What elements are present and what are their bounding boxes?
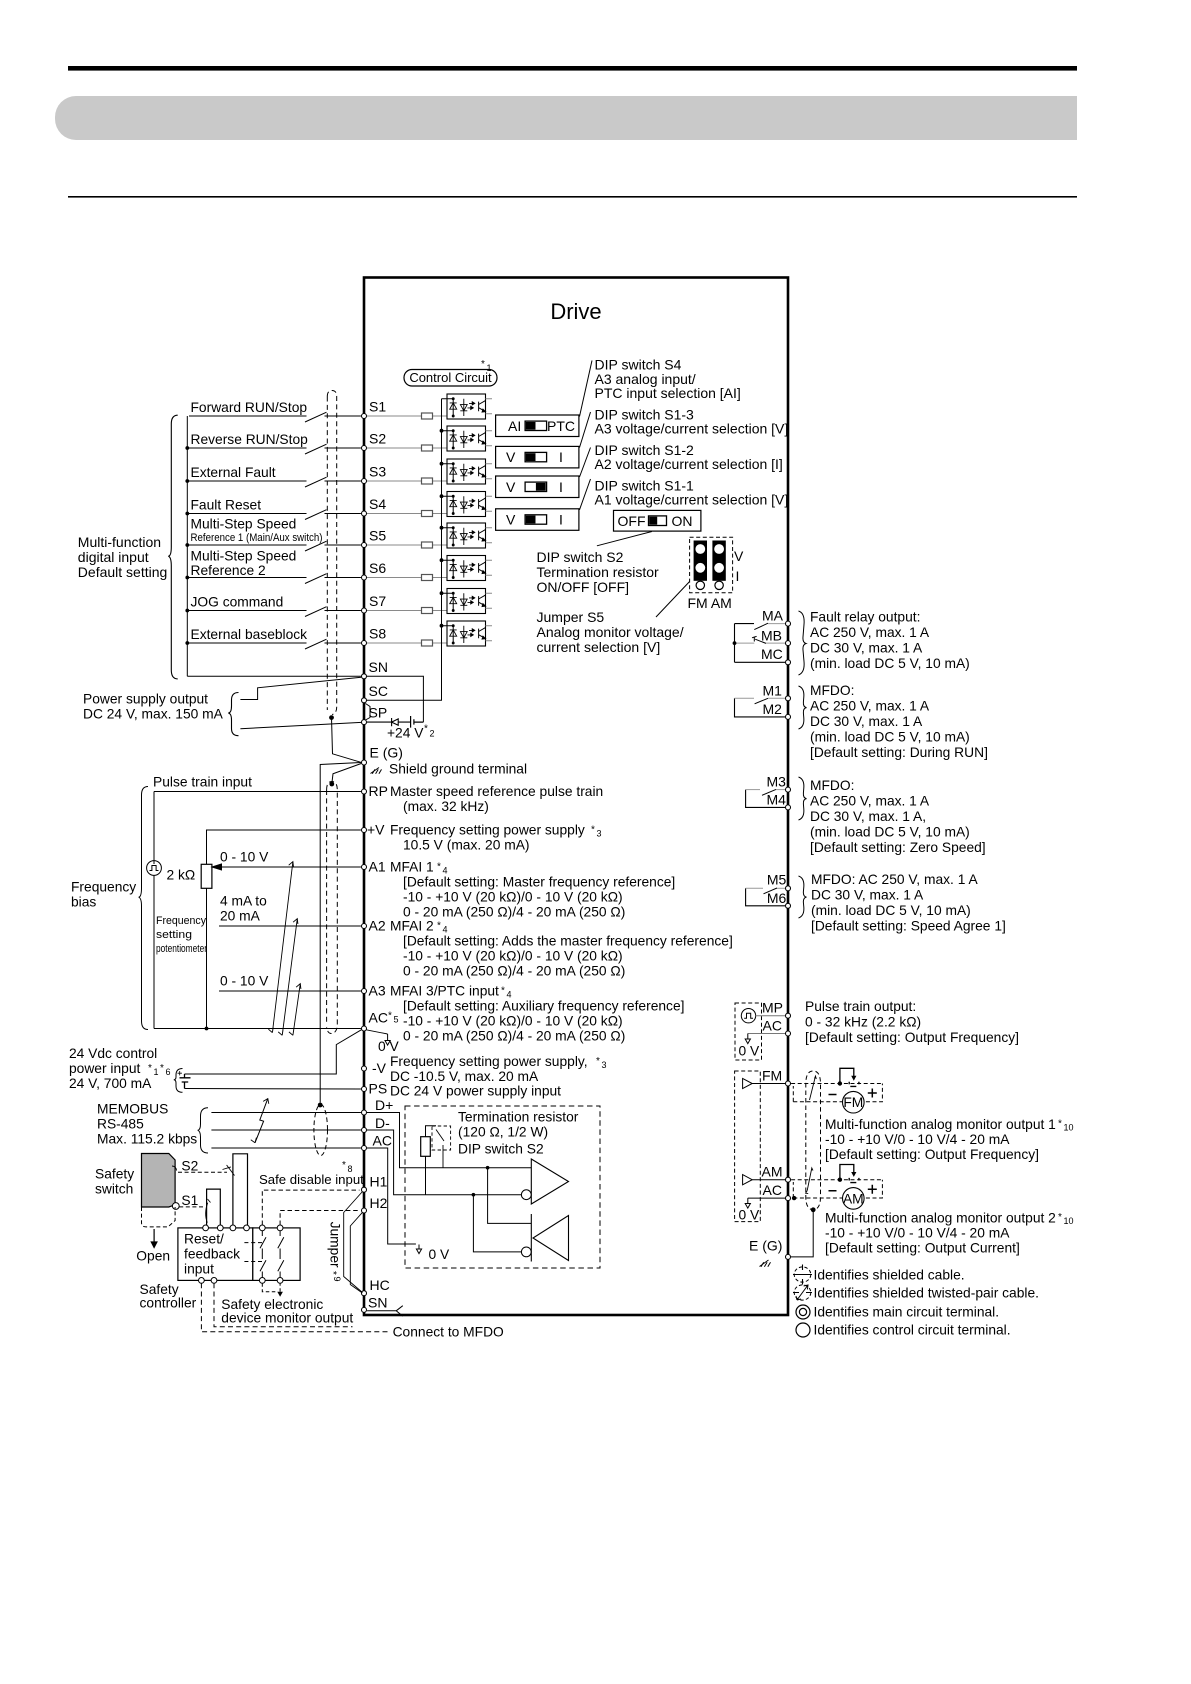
svg-text:I: I [559, 449, 563, 465]
svg-text:Power supply output: Power supply output [83, 692, 208, 707]
safety controller reset box [178, 1228, 253, 1281]
label RP [369, 783, 604, 814]
optocoupler S2 [442, 426, 493, 451]
wire pulse source vertical [153, 861, 155, 1029]
svg-text:current selection [V]: current selection [V] [537, 639, 661, 655]
dashed monitor output arrow [262, 1283, 283, 1297]
svg-text:Safety: Safety [95, 1167, 134, 1182]
wire S2 dashed [178, 1171, 227, 1173]
svg-text:M4: M4 [767, 792, 787, 808]
svg-text:[Default setting: Zero Speed]: [Default setting: Zero Speed] [810, 840, 986, 855]
svg-text:MFDO: AC 250 V, max. 1 A: MFDO: AC 250 V, max. 1 A [811, 872, 978, 887]
svg-text:Identifies control circuit ter: Identifies control circuit terminal. [814, 1323, 1011, 1338]
resistor S6 input [367, 575, 447, 581]
jumper H2 to HC [350, 1212, 362, 1293]
terminal MP [762, 1000, 791, 1019]
svg-text:[Default setting: Output Frequ: [Default setting: Output Frequency] [805, 1030, 1019, 1045]
DIP switch S2 OFF/ON box [614, 510, 701, 531]
callout line S1-1 [580, 479, 591, 510]
terminal PS [362, 1087, 367, 1092]
label safe disable input [259, 1160, 364, 1187]
wire SC internal to opto common bus [367, 399, 443, 701]
svg-text:0 - 20 mA (250 Ω)/4 - 20 mA (2: 0 - 20 mA (250 Ω)/4 - 20 mA (250 Ω) [403, 964, 625, 979]
digital input label S4 [191, 497, 262, 512]
S1 connector bump [207, 1189, 221, 1228]
callout line jumper S5 [656, 582, 690, 618]
MFDO relay M5/M6 [746, 888, 785, 906]
legend twisted pair icon [793, 1285, 812, 1300]
svg-text:A1: A1 [369, 859, 386, 875]
svg-text:MP: MP [762, 1000, 783, 1016]
svg-text:DC 30 V, max. 1 A: DC 30 V, max. 1 A [810, 714, 923, 729]
wire A2 [219, 925, 361, 927]
terminal H2 [362, 1195, 388, 1213]
label FM AM jumper [688, 595, 732, 611]
legend shielded cable icon [793, 1265, 812, 1285]
DIP switch S2 contact [432, 1126, 451, 1168]
MFDO relay M3/M4 [746, 789, 785, 807]
svg-text:Frequency setting power supply: Frequency setting power supply, [390, 1054, 588, 1069]
svg-text:DIP switch S2: DIP switch S2 [537, 549, 624, 565]
battery +24V [387, 716, 435, 741]
svg-text:M2: M2 [763, 701, 783, 717]
DIP switch S1-3 box (V/I) [496, 446, 579, 468]
wire A1 wiper [212, 864, 361, 870]
brace fault relay [799, 611, 807, 675]
svg-text:Multi-Step Speed: Multi-Step Speed [191, 516, 297, 531]
svg-text:[Default setting: Speed Agree: [Default setting: Speed Agree 1] [811, 919, 1006, 934]
optocoupler S3 [442, 459, 493, 484]
terminal S7 [362, 593, 387, 613]
svg-text:S8: S8 [369, 626, 386, 642]
svg-text:S7: S7 [369, 593, 386, 609]
wire D+ external [211, 1112, 361, 1114]
terminal MA [762, 608, 791, 627]
wire safe disable H2 dashed [280, 1211, 359, 1226]
label MFDO M5M6 [811, 872, 1006, 934]
label DIP switch S1-1 [595, 477, 789, 507]
FM output driver [743, 1078, 785, 1088]
svg-text:24 V, 700 mA: 24 V, 700 mA [69, 1076, 152, 1091]
label 0V monitor [739, 1208, 761, 1223]
svg-text:[Default setting: Adds the mas: [Default setting: Adds the master freque… [403, 934, 733, 949]
svg-text:-10 - +10 V (20 kΩ)/0 - 10 V (: -10 - +10 V (20 kΩ)/0 - 10 V (20 kΩ) [403, 949, 623, 964]
wire S4 input [189, 510, 361, 520]
svg-text:(min. load DC 5 V, 10 mA): (min. load DC 5 V, 10 mA) [810, 825, 970, 840]
svg-text:0 V: 0 V [739, 1208, 761, 1223]
svg-text:*: * [424, 724, 428, 735]
resistor S3 input [367, 478, 447, 484]
svg-text:Shield ground terminal: Shield ground terminal [389, 762, 527, 777]
svg-text:E (G): E (G) [749, 1238, 782, 1254]
svg-text:DC 30 V, max. 1 A: DC 30 V, max. 1 A [811, 888, 924, 903]
label 0V termination [429, 1247, 451, 1262]
wire D- internal [367, 1130, 521, 1196]
label analog monitor output 1 [825, 1117, 1074, 1162]
svg-text:device monitor output: device monitor output [221, 1311, 353, 1326]
svg-text:H1: H1 [370, 1174, 388, 1190]
svg-text:0 - 20 mA (250 Ω)/4 - 20 mA (2: 0 - 20 mA (250 Ω)/4 - 20 mA (250 Ω) [403, 1029, 625, 1044]
svg-text:DC 30 V, max. 1 A,: DC 30 V, max. 1 A, [810, 809, 926, 824]
terminal M1 [763, 683, 791, 701]
optocoupler S1 [442, 394, 493, 419]
svg-text:S5: S5 [369, 528, 386, 544]
svg-text:(120 Ω, 1/2 W): (120 Ω, 1/2 W) [458, 1125, 548, 1140]
wire 24Vdc negative to PS [185, 1088, 361, 1091]
svg-text:FM: FM [762, 1068, 782, 1084]
wire S3 input [189, 477, 361, 487]
svg-text:Jumper: Jumper [328, 1222, 343, 1268]
svg-text:9: 9 [332, 1277, 342, 1282]
svg-text:A3 voltage/current selection [: A3 voltage/current selection [V] [595, 421, 789, 437]
wire D- external [211, 1129, 361, 1131]
wire S5 input [189, 541, 361, 551]
optocoupler S4 [442, 492, 493, 517]
svg-text:Reference 2: Reference 2 [191, 563, 266, 578]
ground symbol bottom [760, 1260, 771, 1267]
svg-text:(min. load DC 5 V, 10 mA): (min. load DC 5 V, 10 mA) [811, 903, 971, 918]
drive box [364, 278, 788, 1316]
twisted wire marks analog [268, 862, 301, 1036]
DIP switch S1-1 box (V/I) [496, 509, 579, 531]
svg-text:Frequency: Frequency [156, 915, 206, 927]
svg-text:Multi-Step Speed: Multi-Step Speed [191, 548, 297, 563]
label frequency bias [71, 880, 136, 910]
svg-text:FM AM: FM AM [688, 595, 732, 611]
svg-text:SC: SC [369, 683, 388, 699]
shield ellipse memobus [314, 1105, 328, 1156]
terminal H1 [362, 1174, 388, 1193]
svg-text:MA: MA [762, 608, 784, 624]
terminal RP [362, 789, 367, 794]
terminal S2 [362, 431, 387, 451]
terminal A2 [362, 924, 367, 929]
brace MEMOBUS [198, 1108, 208, 1153]
svg-text:-V: -V [372, 1060, 387, 1076]
svg-text:2: 2 [430, 729, 435, 739]
wire SN common return [187, 675, 361, 677]
svg-text:DC 24 V, max. 150 mA: DC 24 V, max. 150 mA [83, 707, 224, 722]
svg-text:MFAI 1: MFAI 1 [390, 860, 434, 875]
ground symbol shield ground [371, 768, 382, 774]
callout line S4 [580, 361, 593, 417]
wire 24Vdc positive to AC [185, 1030, 362, 1074]
svg-text:*: * [327, 1271, 338, 1275]
AM meter [829, 1185, 877, 1210]
svg-text:Frequency setting power supply: Frequency setting power supply [390, 823, 585, 838]
optocoupler S8 [442, 621, 493, 646]
svg-text:power input: power input [69, 1061, 140, 1076]
wire +V to potentiometer [207, 830, 361, 864]
terminal -V [362, 1066, 367, 1071]
safety switch body [142, 1154, 180, 1210]
svg-text:*: * [1058, 1212, 1062, 1223]
svg-text:*: * [437, 921, 441, 932]
wire AC external [211, 1147, 361, 1149]
svg-text:H2: H2 [370, 1195, 388, 1211]
resistor S2 input [367, 445, 447, 451]
label -V [372, 1054, 607, 1084]
svg-text:Analog monitor voltage/: Analog monitor voltage/ [537, 624, 684, 640]
label frequency setting potentiometer [156, 915, 207, 955]
digital input label S5 [191, 516, 323, 544]
svg-text:Fault relay output:: Fault relay output: [810, 610, 920, 625]
terminal A3 [362, 989, 367, 994]
svg-text:I: I [559, 479, 563, 495]
label fault relay output [810, 610, 970, 672]
svg-text:V: V [506, 512, 516, 528]
svg-text:0 - 20 mA (250 Ω)/4 - 20 mA (2: 0 - 20 mA (250 Ω)/4 - 20 mA (250 Ω) [403, 905, 625, 920]
svg-text:V: V [506, 449, 516, 465]
terminal SC [362, 683, 388, 703]
terminal S3 [362, 464, 387, 484]
svg-text:MFDO:: MFDO: [810, 778, 854, 793]
svg-text:I: I [559, 512, 563, 528]
digital input label S8 [191, 627, 308, 642]
label PS [369, 1081, 562, 1099]
twisted pair mark memobus [251, 1099, 269, 1143]
S2 contact blade [223, 1165, 235, 1176]
shield drain digital inputs [329, 715, 361, 762]
label multi-function digital input [78, 534, 168, 580]
wire SN internal to +24V [367, 676, 423, 722]
svg-text:*: * [481, 359, 485, 370]
brace 24Vdc input [174, 1069, 183, 1093]
svg-text:Multi-function: Multi-function [78, 534, 161, 550]
resistor S1 input [367, 413, 447, 419]
terminal M3 [767, 774, 791, 793]
svg-text:MFAI 3/PTC input: MFAI 3/PTC input [390, 984, 499, 999]
FM jumper loop [838, 1068, 859, 1086]
svg-text:potentiometer: potentiometer [156, 943, 207, 955]
svg-text:JOG command: JOG command [191, 594, 284, 609]
label DIP switch S2 termination [537, 549, 659, 595]
svg-text:Control Circuit: Control Circuit [409, 370, 492, 385]
svg-text:1: 1 [487, 363, 492, 373]
termination resistor R [421, 1126, 436, 1195]
DIP switch S1-2 box (V/I) [496, 476, 579, 498]
legend text control terminal [814, 1323, 1011, 1338]
svg-text:ON/OFF [OFF]: ON/OFF [OFF] [537, 579, 630, 595]
label A1 [369, 859, 676, 920]
svg-text:AC 250 V, max. 1 A: AC 250 V, max. 1 A [810, 794, 930, 809]
svg-text:6: 6 [166, 1067, 171, 1077]
svg-text:A2: A2 [369, 918, 386, 934]
brace power supply output [228, 693, 238, 736]
control circuit label [404, 359, 497, 386]
svg-text:0 V: 0 V [739, 1044, 761, 1059]
svg-text:Identifies main circuit termin: Identifies main circuit terminal. [814, 1305, 1000, 1320]
svg-text:AM: AM [762, 1164, 783, 1180]
arrow open [151, 1229, 157, 1247]
svg-text:3: 3 [602, 1060, 607, 1070]
resistor S5 input [367, 542, 447, 548]
svg-text:AM: AM [843, 1191, 864, 1206]
terminal M2 [763, 701, 791, 719]
potentiometer 2k [167, 864, 212, 1028]
svg-text:Reset/: Reset/ [184, 1232, 224, 1247]
safety contact pair 1 [260, 1231, 266, 1278]
wire SC-SP jumper link [366, 704, 371, 721]
svg-text:8: 8 [348, 1164, 353, 1174]
wire S7 input [189, 607, 361, 617]
svg-text:*: * [1058, 1119, 1062, 1130]
wire AC to 0V arrow [366, 1030, 390, 1045]
wire AC internal to 0V [367, 1148, 422, 1254]
wire buffer branch upper [488, 1168, 532, 1224]
svg-text:S1: S1 [181, 1193, 198, 1208]
label 24Vdc control power input [69, 1046, 171, 1091]
svg-text:SP: SP [369, 705, 388, 721]
svg-text:[Default setting: Master frequ: [Default setting: Master frequency refer… [403, 875, 675, 890]
label open [136, 1249, 170, 1264]
svg-text:Pulse train input: Pulse train input [153, 775, 252, 790]
svg-text:[Default setting: Output Frequ: [Default setting: Output Frequency] [825, 1147, 1039, 1162]
svg-text:Frequency: Frequency [71, 880, 136, 895]
terminal E(G) bottom [749, 1238, 791, 1260]
wire buffer branch lower [473, 1195, 521, 1252]
svg-text:DC 24 V power supply input: DC 24 V power supply input [390, 1084, 561, 1099]
svg-text:MC: MC [761, 646, 783, 662]
svg-text:-10 - +10 V (20 kΩ)/0 - 10 V (: -10 - +10 V (20 kΩ)/0 - 10 V (20 kΩ) [403, 1014, 623, 1029]
svg-text:*: * [342, 1160, 346, 1171]
shielded cable digital inputs [327, 391, 336, 715]
svg-text:AC: AC [369, 1010, 388, 1026]
svg-text:RP: RP [369, 783, 388, 799]
digital input label S6 [191, 548, 297, 578]
brace multi-function digital input [168, 415, 177, 679]
label MEMOBUS [97, 1102, 197, 1147]
label jumper [327, 1222, 343, 1282]
svg-text:DIP switch S2: DIP switch S2 [458, 1142, 544, 1157]
svg-text:*: * [591, 825, 595, 836]
resistor S4 input [367, 511, 447, 517]
svg-text:RS-485: RS-485 [97, 1117, 144, 1132]
wire S2 input [189, 444, 361, 454]
label MFDO M3M4 [810, 778, 986, 855]
svg-text:DC -10.5 V, max. 20 mA: DC -10.5 V, max. 20 mA [390, 1069, 539, 1084]
svg-text:*: * [596, 1056, 600, 1067]
svg-text:I: I [736, 568, 740, 584]
svg-text:AC: AC [763, 1182, 782, 1198]
svg-text:20 mA: 20 mA [220, 909, 261, 924]
svg-text:AC 250 V, max. 1 A: AC 250 V, max. 1 A [810, 699, 930, 714]
terminal SP [362, 705, 388, 725]
svg-text:0 V: 0 V [429, 1247, 451, 1262]
label A3 [369, 983, 685, 1044]
callout line S1-2 [580, 448, 591, 478]
svg-text:-10 - +10 V/0 - 10 V/4 - 20 mA: -10 - +10 V/0 - 10 V/4 - 20 mA [825, 1226, 1010, 1241]
svg-text:10: 10 [1064, 1123, 1074, 1133]
svg-text:Safe disable input: Safe disable input [259, 1172, 364, 1187]
svg-text:DC 30 V, max. 1 A: DC 30 V, max. 1 A [810, 641, 923, 656]
svg-text:-10 - +10 V (20 kΩ)/0 - 10 V (: -10 - +10 V (20 kΩ)/0 - 10 V (20 kΩ) [403, 890, 623, 905]
AM meter dashed leads [791, 1180, 883, 1201]
svg-text:MFDO:: MFDO: [810, 683, 854, 698]
label DIP switch S4 [595, 356, 741, 401]
svg-text:setting: setting [156, 929, 192, 941]
svg-text:Master speed reference pulse t: Master speed reference pulse train [390, 784, 603, 799]
legend text shielded cable [814, 1268, 965, 1283]
wire S8 input [189, 639, 361, 649]
svg-text:0 V: 0 V [378, 1039, 400, 1054]
shield drain monitors [791, 1207, 816, 1257]
DIP switch S4 box (AI/PTC) [496, 415, 579, 437]
svg-text:MFAI 2: MFAI 2 [390, 919, 434, 934]
svg-text:Pulse train output:: Pulse train output: [805, 999, 916, 1014]
svg-text:(min. load DC 5 V, 10 mA): (min. load DC 5 V, 10 mA) [810, 656, 970, 671]
contact linkage dashes [244, 1243, 264, 1262]
svg-text:-10 - +10 V/0 - 10 V/4 - 20 mA: -10 - +10 V/0 - 10 V/4 - 20 mA [825, 1132, 1010, 1147]
terminal AC analog common [362, 1026, 367, 1031]
digital input label S3 [191, 465, 276, 480]
svg-text:0 - 32 kHz (2.2 kΩ): 0 - 32 kHz (2.2 kΩ) [805, 1015, 921, 1030]
svg-text:ON: ON [672, 513, 693, 529]
terminal MB [761, 628, 791, 646]
terminal E(G) shield ground [362, 745, 403, 766]
svg-text:AC 250 V, max. 1 A: AC 250 V, max. 1 A [810, 625, 930, 640]
svg-text:*: * [148, 1063, 152, 1074]
pulse monitor dashed box MP [735, 1003, 762, 1060]
svg-text:Termination resistor: Termination resistor [458, 1110, 579, 1125]
digital input label S1 [191, 400, 308, 415]
svg-text:AI: AI [508, 418, 521, 434]
terminal HC [362, 1277, 390, 1296]
svg-text:HC: HC [370, 1277, 390, 1293]
svg-text:D-: D- [375, 1115, 390, 1131]
optocoupler S7 [442, 589, 493, 614]
drive title [550, 299, 601, 324]
resistor S7 input [367, 608, 447, 614]
svg-text:*: * [160, 1063, 164, 1074]
svg-text:Jumper S5: Jumper S5 [537, 609, 605, 625]
svg-text:4 mA to: 4 mA to [220, 894, 267, 909]
svg-text:[Default setting: During RUN]: [Default setting: During RUN] [810, 745, 988, 760]
svg-text:S4: S4 [369, 496, 386, 512]
shielded cable analog inputs [327, 782, 338, 1034]
label 0-10V A3 [220, 974, 269, 989]
wire S1 dashed [179, 1206, 205, 1208]
svg-text:PTC: PTC [547, 418, 575, 434]
terminal SN bottom [362, 1295, 388, 1313]
svg-text:S6: S6 [369, 560, 386, 576]
svg-text:Multi-function analog monitor: Multi-function analog monitor output 2 [825, 1211, 1056, 1226]
svg-text:digital input: digital input [78, 549, 149, 565]
label pulse train output [805, 999, 1019, 1045]
label A2 [369, 918, 733, 979]
svg-text:PTC input selection [AI]: PTC input selection [AI] [595, 385, 741, 401]
wire S6 input [189, 574, 361, 584]
terminal AC memobus [362, 1133, 392, 1151]
terminal +V [362, 828, 367, 833]
svg-text:M5: M5 [767, 872, 787, 888]
shield drain RS-485 vertical [318, 763, 361, 1108]
svg-text:MEMOBUS: MEMOBUS [97, 1102, 168, 1117]
svg-text:AC: AC [373, 1133, 392, 1149]
label DIP switch S1-3 [595, 407, 789, 437]
svg-text:Reverse RUN/Stop: Reverse RUN/Stop [191, 432, 309, 447]
FM meter dashed leads [791, 1084, 883, 1102]
terminal M5 [767, 872, 791, 891]
driver buffer upper [521, 1159, 568, 1204]
terminal M4 [767, 792, 791, 810]
svg-text:24 Vdc control: 24 Vdc control [69, 1046, 157, 1061]
label safety controller [140, 1282, 197, 1311]
label safety switch [95, 1167, 134, 1197]
header bottom rule [68, 196, 1077, 198]
resistor S8 input [367, 640, 447, 646]
digital input label S2 [191, 432, 309, 447]
